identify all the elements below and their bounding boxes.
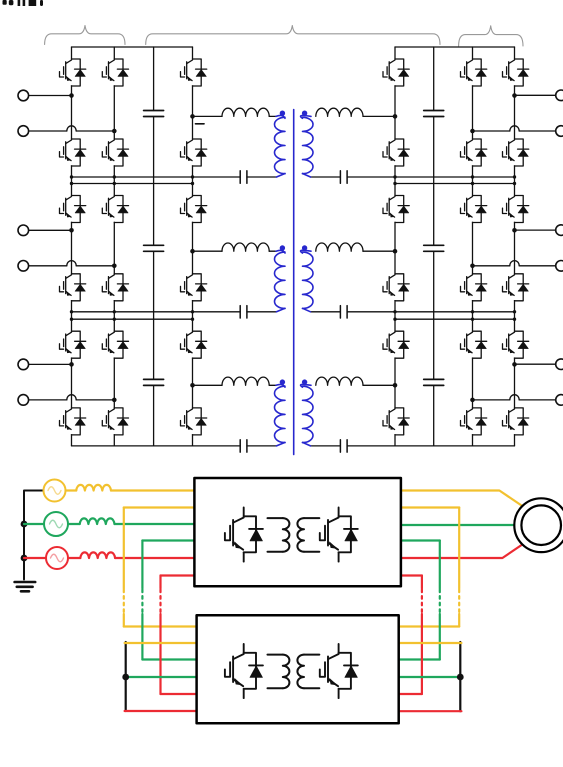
IGBT Q22 input bridge leg1 bottom	[58, 274, 86, 301]
IGBT Q33 input bridge leg2 top	[101, 331, 129, 358]
inductor phase A (yellow)	[76, 485, 111, 491]
inductor DAB primary row3	[222, 377, 269, 385]
wire yellow phase into module 1	[66, 489, 195, 491]
inductor DAB secondary row2	[316, 243, 363, 251]
wire star-point bus right (vertical)	[459, 642, 461, 711]
wire green left interconnect (dashed = further modules)	[141, 541, 143, 589]
transformer core (shared)	[293, 110, 295, 455]
wire grid neutral bus	[24, 491, 44, 580]
capacitor series blocking right row3	[340, 440, 347, 452]
transformer T2 secondary lead top	[301, 250, 311, 253]
IGBT power module 1 left device	[225, 508, 263, 562]
wire red right interconnect (dashed = further modules)	[421, 576, 423, 589]
transformer T2 primary lead bottom	[277, 308, 286, 312]
IGBT Q111 output bridge leg2 top	[501, 59, 529, 86]
wire green module1 to motor	[401, 524, 515, 526]
IGBT Q112 output bridge leg2 bottom	[501, 139, 529, 166]
inductor phase B (green)	[80, 518, 115, 524]
transformer T1 secondary polarity dot	[302, 111, 307, 116]
IGBT Q32 input bridge leg1 bottom	[58, 408, 86, 435]
transformer T2 secondary winding	[303, 252, 314, 308]
wire green module2 return right	[399, 676, 461, 678]
inductor DAB primary row2	[222, 243, 269, 251]
wire yellow module2 return right	[399, 642, 461, 644]
node star-point right junction	[457, 674, 464, 681]
input terminal circle 1 row3	[18, 359, 29, 370]
IGBT Q25 DAB primary top	[179, 196, 207, 223]
wire red module2 return left	[125, 710, 197, 712]
node star-point left junction	[122, 674, 129, 681]
ground symbol	[15, 582, 36, 591]
IGBT Q29 output bridge leg1 top	[459, 196, 487, 223]
IGBT Q311 output bridge leg2 top	[501, 331, 529, 358]
transformer T3 secondary polarity dot	[302, 379, 307, 384]
IGBT power module 2 left device	[225, 644, 263, 698]
wire top DC rail left row2	[72, 183, 193, 185]
wire red source stub	[24, 557, 46, 559]
inductor DAB primary row1	[222, 108, 269, 116]
inductor phase C (red)	[80, 552, 115, 558]
output terminal circle 2 row2	[556, 261, 563, 272]
capacitor DC-link left row1	[144, 111, 164, 117]
IGBT power module 1 right device	[320, 508, 358, 562]
wire red module2 return right	[399, 710, 461, 712]
capacitor series blocking right row2	[340, 306, 347, 318]
wire input terminal 1 row2	[29, 229, 72, 231]
wire red module1-to-module2 left	[161, 574, 195, 576]
wire leg column output bridge leg 1	[472, 47, 474, 446]
wire input terminal 2 with crossover hop row2	[29, 265, 115, 267]
IGBT Q17 DAB secondary top	[382, 59, 410, 86]
transformer power module 2 left coil	[268, 654, 283, 656]
wire after primary inductor row2	[269, 250, 276, 252]
wire green phase into module 1	[68, 523, 194, 525]
IGBT Q21 input bridge leg1 top	[58, 196, 86, 223]
transformer T1 secondary lead bottom	[303, 174, 311, 178]
wire crossover hop over leg A row3	[67, 395, 76, 400]
wire DAB primary mid row1	[193, 115, 223, 117]
IGBT Q11 input bridge leg1 top	[58, 59, 86, 86]
power module 1 module box	[194, 478, 401, 586]
transformer T3 primary winding	[275, 386, 286, 442]
wire top DC rail left row1	[72, 46, 193, 48]
transformer T3 secondary lead bottom	[303, 442, 311, 446]
node junction dots row1	[69, 93, 517, 133]
wire output terminal 2 with crossover hop row3	[473, 399, 556, 401]
node inter-row rail junctions	[70, 175, 516, 321]
wire DC-link capacitor column left	[153, 47, 155, 446]
wire input terminal 2 with crossover hop row1	[29, 130, 115, 132]
capacitor series blocking left row3	[240, 440, 247, 452]
wire yellow module2 return left	[125, 642, 197, 644]
wire leg column A (input bridge leg 1)	[71, 47, 73, 446]
node neutral-red junction	[21, 555, 28, 562]
transformer T2 primary winding	[275, 252, 286, 308]
IGBT power module 2 right device	[320, 644, 358, 698]
AC source phase C (red)	[46, 547, 68, 569]
polarity minus label row1	[196, 123, 205, 125]
input terminal circle 2 row1	[18, 126, 29, 137]
input terminal circle 2 row3	[18, 395, 29, 406]
wire DAB secondary mid row2	[363, 250, 395, 252]
wire yellow right interconnect (dashed = further modules)	[458, 508, 460, 589]
IGBT Q28 DAB secondary bottom	[382, 274, 410, 301]
brace over input H-bridge stage	[45, 26, 125, 45]
IGBT Q310 output bridge leg1 bottom	[459, 408, 487, 435]
wire output terminal 1 row2	[515, 229, 556, 231]
IGBT Q210 output bridge leg1 bottom	[459, 274, 487, 301]
wire green source stub	[24, 523, 44, 525]
wire leg column B (input bridge leg 2)	[113, 47, 115, 446]
output terminal circle 1 row2	[556, 225, 563, 236]
IGBT Q27 DAB secondary top	[382, 196, 410, 223]
wire input terminal 1 row1	[29, 95, 72, 97]
capacitor DC-link right row1	[424, 111, 444, 117]
brace over output H-bridge stage	[459, 26, 523, 46]
IGBT Q23 input bridge leg2 top	[101, 196, 129, 223]
wire input terminal 2 with crossover hop row3	[29, 399, 115, 401]
IGBT Q26 DAB primary bottom	[179, 274, 207, 301]
output terminal circle 2 row3	[556, 395, 563, 406]
motor M (machine) outer	[514, 498, 563, 552]
transformer T1 secondary lead top	[301, 115, 311, 118]
capacitor DC-link left row2	[144, 245, 164, 251]
IGBT Q13 input bridge leg2 top	[101, 59, 129, 86]
wire bottom rail left row2	[72, 311, 277, 313]
capacitor DC-link right row2	[424, 245, 444, 251]
transformer T3 primary polarity dot	[280, 379, 285, 384]
transformer power module 1 left coil	[268, 517, 283, 519]
IGBT Q16 DAB primary bottom	[179, 139, 207, 166]
transformer T3 secondary lead top	[301, 384, 311, 387]
IGBT Q14 input bridge leg2 bottom	[101, 139, 129, 166]
wire green right interconnect (dashed = further modules)	[439, 541, 441, 589]
capacitor series blocking left row1	[240, 171, 247, 183]
input terminal circle 2 row2	[18, 261, 29, 272]
input terminal circle 1 row2	[18, 225, 29, 236]
wire crossover hop over output leg row3	[510, 395, 519, 400]
wire yellow module1-to-module2 left	[124, 506, 195, 508]
wire after primary inductor row1	[269, 115, 276, 117]
IGBT Q24 input bridge leg2 bottom	[101, 274, 129, 301]
IGBT Q110 output bridge leg1 bottom	[459, 139, 487, 166]
wire bottom rail left row3	[72, 445, 277, 447]
wire after primary inductor row3	[269, 384, 276, 386]
wire DAB secondary mid row1	[363, 115, 395, 117]
IGBT Q36 DAB primary bottom	[179, 408, 207, 435]
wire red left interconnect (dashed = further modules)	[159, 576, 161, 589]
wire green module1-to-module2 right	[401, 539, 440, 541]
wire bottom rail left row1	[72, 176, 277, 178]
wire crossover hop over leg A row1	[67, 126, 76, 131]
wire leg column DAB primary leg	[192, 47, 194, 446]
wire leg column output bridge leg 2	[514, 47, 516, 446]
wire red module1 to motor	[401, 545, 522, 559]
wire DAB primary mid row2	[193, 250, 223, 252]
inductor DAB secondary row1	[316, 108, 363, 116]
IGBT Q212 output bridge leg2 bottom	[501, 274, 529, 301]
wire green module2 return left	[125, 676, 197, 678]
AC source phase A (yellow)	[44, 480, 66, 502]
AC source phase B (green)	[44, 512, 68, 536]
wire top DC rail right row3	[395, 318, 515, 320]
IGBT Q15 DAB primary top	[179, 59, 207, 86]
wire bottom rail right row1	[311, 176, 515, 178]
transformer power module 1 right coil	[304, 517, 319, 519]
node neutral-green junction	[21, 521, 28, 528]
wire top DC rail right row2	[395, 183, 515, 185]
wire DC-link capacitor column right	[433, 47, 435, 446]
IGBT Q211 output bridge leg2 top	[501, 196, 529, 223]
wire red phase into module 1	[68, 557, 194, 559]
IGBT Q39 output bridge leg1 top	[459, 331, 487, 358]
wire bottom rail right row3	[311, 445, 515, 447]
wire DAB primary mid row3	[193, 384, 223, 386]
transformer T2 secondary polarity dot	[302, 245, 307, 250]
transformer T3 primary lead top	[276, 384, 285, 387]
wire crossover hop over output leg row2	[510, 261, 519, 266]
wire crossover hop over leg A row2	[67, 261, 76, 266]
transformer T3 secondary winding	[303, 386, 314, 442]
IGBT Q38 DAB secondary bottom	[382, 408, 410, 435]
capacitor DC-link right row3	[424, 379, 444, 385]
transformer T2 secondary lead bottom	[303, 308, 311, 312]
wire star-point bus left (vertical)	[125, 642, 127, 711]
transformer T1 secondary winding	[303, 117, 314, 173]
IGBT Q34 input bridge leg2 bottom	[101, 408, 129, 435]
IGBT Q312 output bridge leg2 bottom	[501, 408, 529, 435]
wire yellow left interconnect (dashed = further modules)	[123, 508, 125, 589]
IGBT Q31 input bridge leg1 top	[58, 331, 86, 358]
IGBT Q37 DAB secondary top	[382, 331, 410, 358]
power module 2 module box	[197, 615, 399, 723]
capacitor series blocking right row1	[340, 171, 347, 183]
transformer T3 primary lead bottom	[277, 442, 286, 446]
transformer T2 primary lead top	[276, 250, 285, 253]
cropped caption text	[3, 0, 44, 6]
wire red module1-to-module2 right	[401, 574, 422, 576]
capacitor series blocking left row2	[240, 306, 247, 318]
wire green module1-to-module2 left	[142, 539, 194, 541]
transformer T1 primary lead bottom	[277, 174, 286, 178]
transformer T1 primary lead top	[276, 115, 285, 118]
output terminal circle 1 row3	[556, 359, 563, 370]
capacitor DC-link left row3	[144, 379, 164, 385]
input terminal circle 1 row1	[18, 90, 29, 101]
wire yellow module1 to motor	[401, 491, 522, 507]
wire top DC rail left row3	[72, 318, 193, 320]
node junction dots row2	[69, 228, 517, 268]
wire output terminal 1 row3	[515, 363, 556, 365]
wire input terminal 1 row3	[29, 363, 72, 365]
IGBT Q19 output bridge leg1 top	[459, 59, 487, 86]
wire output terminal 2 with crossover hop row1	[473, 130, 556, 132]
IGBT Q12 input bridge leg1 bottom	[58, 139, 86, 166]
wire top DC rail right row1	[395, 46, 515, 48]
wire bottom rail right row2	[311, 311, 515, 313]
output terminal circle 1 row1	[556, 90, 563, 101]
IGBT Q18 DAB secondary bottom	[382, 139, 410, 166]
inductor DAB secondary row3	[316, 377, 363, 385]
wire leg column DAB secondary leg	[394, 47, 396, 446]
transformer T1 primary winding	[275, 117, 286, 173]
node junction dots row3	[69, 362, 517, 402]
transformer power module 2 right coil	[304, 654, 319, 656]
wire crossover hop over output leg row1	[510, 126, 519, 131]
wire output terminal 1 row1	[515, 94, 556, 96]
motor M (machine) inner	[521, 505, 561, 545]
wire output terminal 2 with crossover hop row2	[473, 265, 556, 267]
wire yellow module1-to-module2 right	[401, 506, 459, 508]
output terminal circle 2 row1	[556, 126, 563, 137]
brace over isolated DC-DC stage	[146, 26, 440, 45]
transformer T1 primary polarity dot	[280, 111, 285, 116]
transformer T2 primary polarity dot	[280, 245, 285, 250]
IGBT Q35 DAB primary top	[179, 331, 207, 358]
wire DAB secondary mid row3	[363, 384, 395, 386]
